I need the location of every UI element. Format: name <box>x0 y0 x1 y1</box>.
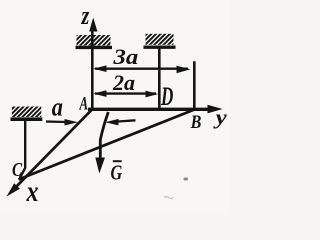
right support hatch <box>146 34 174 45</box>
svg-text:x: x <box>26 174 39 207</box>
z axis <box>91 28 94 110</box>
B extension line <box>193 61 196 110</box>
faint mark artifact <box>164 197 173 199</box>
force G arrowhead <box>95 158 105 174</box>
left support hatch <box>12 107 41 118</box>
left support rod to C <box>20 121 25 178</box>
svg-text:B: B <box>190 111 202 133</box>
y axis (A to B segment and beyond) <box>88 108 209 111</box>
svg-text:a: a <box>52 93 63 122</box>
3a dimension line <box>95 67 188 69</box>
a dimension left-pointing arrow <box>116 120 136 121</box>
svg-text:3a: 3a <box>112 45 138 70</box>
svg-text:D: D <box>160 82 173 112</box>
svg-text:G: G <box>111 161 123 185</box>
svg-text:y: y <box>212 106 227 129</box>
2a left arrowhead <box>93 90 106 97</box>
force G stroke (curved leader from y axis) <box>100 112 108 159</box>
top support line <box>76 46 113 49</box>
svg-text:A: A <box>79 93 89 114</box>
x axis arrowhead <box>7 183 20 196</box>
x axis line through A and C <box>12 110 92 191</box>
2a dimension line <box>95 92 156 94</box>
2a right arrowhead <box>146 91 159 98</box>
bar CB <box>19 110 195 180</box>
right support line <box>144 46 176 49</box>
top support hatch <box>77 35 111 46</box>
z axis arrowhead <box>89 18 97 32</box>
svg-text:2a: 2a <box>112 70 135 95</box>
left support line <box>11 117 43 121</box>
3a right arrowhead <box>177 66 191 73</box>
a dimension right-pointing arrow <box>46 120 66 123</box>
3a left arrowhead <box>93 65 106 72</box>
speck artifact <box>184 178 189 181</box>
svg-text:z: z <box>81 2 90 31</box>
y axis arrowhead <box>208 105 223 114</box>
right support rod to D <box>158 48 161 109</box>
